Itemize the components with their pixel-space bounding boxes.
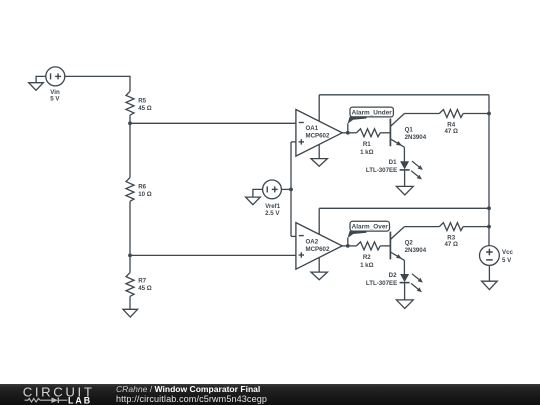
svg-text:1 kΩ: 1 kΩ [360, 262, 374, 269]
svg-text:LAB: LAB [68, 395, 92, 405]
svg-text:2N3904: 2N3904 [405, 247, 427, 254]
svg-text:Alarm_Under: Alarm_Under [352, 110, 393, 117]
svg-text:45 Ω: 45 Ω [138, 285, 152, 292]
svg-text:LTL-307EE: LTL-307EE [366, 280, 397, 287]
svg-text:Vcc: Vcc [502, 249, 514, 256]
svg-text:45 Ω: 45 Ω [138, 105, 152, 112]
svg-text:10 Ω: 10 Ω [138, 191, 152, 198]
svg-text:OA1: OA1 [306, 125, 319, 132]
svg-text:CRahne / Window Comparator Fin: CRahne / Window Comparator Final [116, 384, 260, 394]
svg-text:R6: R6 [138, 184, 146, 191]
svg-text:http://circuitlab.com/c5rwm5n4: http://circuitlab.com/c5rwm5n43cegp [116, 394, 267, 404]
svg-text:5 V: 5 V [50, 96, 60, 103]
svg-text:47 Ω: 47 Ω [444, 128, 458, 135]
svg-text:Q1: Q1 [405, 127, 414, 134]
svg-text:Alarm_Over: Alarm_Over [352, 224, 389, 231]
svg-text:MCP602: MCP602 [306, 133, 330, 140]
svg-text:D2: D2 [389, 272, 397, 279]
svg-text:1 kΩ: 1 kΩ [360, 149, 374, 156]
svg-text:LTL-307EE: LTL-307EE [366, 167, 397, 174]
svg-text:R5: R5 [138, 97, 146, 104]
svg-text:5 V: 5 V [502, 257, 512, 264]
svg-text:R1: R1 [363, 141, 371, 148]
svg-text:Q2: Q2 [405, 240, 414, 247]
svg-text:OA2: OA2 [306, 238, 319, 245]
svg-text:R2: R2 [363, 254, 371, 261]
svg-text:D1: D1 [389, 159, 397, 166]
svg-text:MCP602: MCP602 [306, 246, 330, 253]
svg-text:R7: R7 [138, 277, 146, 284]
svg-text:2.5 V: 2.5 V [265, 210, 280, 217]
svg-text:47 Ω: 47 Ω [444, 241, 458, 248]
svg-text:2N3904: 2N3904 [405, 134, 427, 141]
